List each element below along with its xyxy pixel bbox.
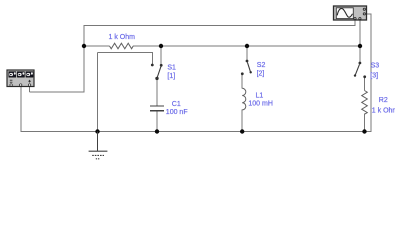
wire FG common terminal down [20, 86, 22, 132]
wire ground loop vertical x=97.5 [97, 53, 99, 133]
scope right terminal upper [363, 8, 365, 10]
svg-text:100 mH: 100 mH [248, 101, 273, 108]
scope right terminal lower [363, 13, 365, 15]
wire scope terminal B lead down to node D [359, 20, 361, 46]
svg-text:S2: S2 [257, 62, 266, 69]
svg-text:[1]: [1] [167, 73, 175, 80]
node F junction C1 bottom [155, 129, 159, 133]
switch S1 [151, 64, 163, 81]
node A junction left riser / middle row [82, 44, 86, 48]
node C junction S2 branch [245, 44, 249, 48]
svg-text:100 nF: 100 nF [166, 109, 188, 116]
svg-text:C1: C1 [172, 101, 181, 108]
function generator XFG1 [7, 70, 34, 87]
wire top rail from node A riser to scope channel A [84, 25, 356, 27]
wire ground loop drop to S1 left throw [151, 53, 153, 65]
FG minus mark [10, 79, 13, 81]
wire scope right terminal horizontal segment [365, 13, 372, 15]
FG terminal common [20, 84, 22, 86]
wire FG plus terminal horizontal to riser [30, 91, 85, 93]
ground [89, 132, 108, 159]
wire FG plus terminal drop [29, 86, 31, 92]
switch S3 [354, 62, 366, 79]
wire S3 top lead [359, 46, 361, 62]
scope bottom terminal B [359, 18, 361, 20]
svg-text:1 k Ohm: 1 k Ohm [372, 107, 395, 114]
resistor R1 [110, 43, 134, 49]
FG terminal minus [10, 84, 12, 86]
wire middle row left of R1 [84, 45, 110, 47]
wire ground loop horizontal [98, 52, 153, 54]
svg-text:1 k Ohm: 1 k Ohm [109, 34, 136, 41]
FG terminal plus [28, 84, 30, 86]
wire left riser x=84 [83, 25, 85, 93]
switch S2 [241, 60, 252, 76]
wire C1 bottom lead [156, 111, 158, 133]
wire scope terminal A lead [354, 20, 356, 26]
inductor L1 [242, 88, 246, 110]
wire bottom rail [21, 131, 372, 133]
node G junction L1 bottom [240, 129, 244, 133]
node E junction ground on bottom rail [95, 129, 99, 133]
scope bottom terminal A [354, 18, 356, 20]
wire middle row right of R1 [133, 45, 360, 47]
resistor R2 [362, 91, 368, 115]
svg-text:[2]: [2] [257, 71, 265, 78]
wire L1 bottom lead [241, 110, 243, 133]
capacitor C1 [150, 106, 164, 111]
wire S2 top lead [246, 46, 248, 60]
svg-text:R2: R2 [379, 97, 388, 104]
svg-text:S3: S3 [371, 62, 380, 69]
wire S1 top lead [160, 46, 162, 65]
wire R2 bottom lead [364, 114, 366, 133]
oscilloscope XSC1 [334, 6, 367, 20]
svg-text:S1: S1 [167, 65, 176, 72]
node H junction R2 bottom [362, 129, 366, 133]
FG plus mark [28, 80, 31, 82]
svg-text:[3]: [3] [370, 72, 378, 79]
svg-text:L1: L1 [256, 92, 264, 99]
wire S3 bottom contact to R2 [364, 78, 366, 91]
node D junction S3 / scope B branch [358, 44, 362, 48]
node B junction S1 branch [159, 44, 163, 48]
wire S1 pole to C1 [156, 79, 158, 107]
wire S2 bottom contact to L1 [241, 75, 243, 89]
wire right edge vertical down to bottom rail [370, 14, 372, 132]
